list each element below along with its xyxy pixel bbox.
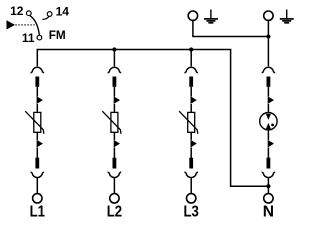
FM contact 14 fixed contact hook bbox=[42, 16, 49, 19]
terminal L3 bbox=[187, 194, 196, 203]
wire F2 below varistor bbox=[113, 132, 115, 140]
thermal disconnect element bottom F4 bbox=[267, 158, 271, 169]
wire F2 to varistor bbox=[113, 104, 115, 112]
wire PE1 link bbox=[193, 20, 269, 36]
disconnect indicator arrow bottom F2 bbox=[114, 140, 120, 148]
disconnect indicator arrow bottom F1 bbox=[37, 140, 43, 148]
svg-text:14: 14 bbox=[56, 4, 70, 18]
thermal disconnect element top F4 bbox=[267, 77, 271, 87]
disconnect indicator arrow top F3 bbox=[191, 96, 197, 104]
wire L2 riser bbox=[113, 50, 115, 67]
wire F4 to spark gap bbox=[267, 104, 269, 115]
wire F1 to terminal bbox=[36, 178, 38, 193]
gas discharge tube F4 bbox=[260, 113, 277, 130]
plug-in disconnect top F1 bbox=[31, 67, 45, 72]
wire F2 to terminal bbox=[113, 178, 115, 193]
wire F2 lower bbox=[113, 148, 115, 159]
disconnect indicator arrow top F2 bbox=[114, 96, 120, 104]
wire F3 to terminal bbox=[190, 178, 192, 193]
svg-text:FM: FM bbox=[49, 28, 66, 42]
disconnect indicator arrow top F1 bbox=[37, 96, 43, 104]
varistor F3 bbox=[188, 112, 195, 132]
thermal disconnect element top F3 bbox=[189, 77, 193, 87]
wire F1 to varistor bbox=[36, 104, 38, 112]
wire F3 upper bbox=[190, 87, 192, 97]
wire L3 riser bbox=[190, 50, 192, 67]
wire F3 below varistor bbox=[190, 132, 192, 140]
wire F1 upper bbox=[36, 87, 38, 97]
junction bus L2 bbox=[112, 47, 116, 51]
junction PE link / N riser bbox=[266, 34, 270, 38]
thermal disconnect element bottom F3 bbox=[189, 158, 193, 169]
svg-text:11: 11 bbox=[22, 31, 35, 45]
wire F4 upper bbox=[267, 87, 269, 97]
varistor F2 bbox=[111, 112, 118, 132]
thermal disconnect element bottom F2 bbox=[113, 158, 117, 169]
svg-text:L2: L2 bbox=[107, 204, 123, 221]
wire F4 below spark gap bbox=[267, 128, 269, 140]
wire F4 to terminal bbox=[267, 178, 269, 193]
actuator arrow bbox=[7, 20, 16, 29]
plug-in disconnect bottom F1 bbox=[31, 172, 45, 177]
terminal N bbox=[264, 194, 273, 203]
ground symbol PE1 bbox=[204, 10, 218, 23]
disconnect indicator arrow bottom F4 bbox=[268, 140, 274, 148]
plug-in disconnect bottom F4 bbox=[262, 172, 276, 177]
plug-in disconnect top F4 bbox=[262, 67, 276, 72]
varistor F1 bbox=[34, 112, 41, 132]
junction bus L3 bbox=[189, 47, 193, 51]
wire main bus bbox=[37, 50, 268, 187]
disconnect indicator arrow top F4 bbox=[268, 96, 274, 104]
plug-in disconnect top F2 bbox=[108, 67, 122, 72]
wire F3 lower bbox=[190, 148, 192, 159]
wire F3 to varistor bbox=[190, 104, 192, 112]
wire F1 lower bbox=[36, 148, 38, 159]
plug-in disconnect bottom F2 bbox=[108, 172, 122, 177]
wire F1 below varistor bbox=[36, 132, 38, 140]
wire F2 upper bbox=[113, 87, 115, 97]
disconnect indicator arrow bottom F3 bbox=[191, 140, 197, 148]
svg-text:12: 12 bbox=[10, 4, 24, 18]
wire F4 lower bbox=[267, 148, 269, 159]
svg-text:L3: L3 bbox=[184, 204, 200, 221]
terminal L2 bbox=[110, 194, 119, 203]
svg-text:L1: L1 bbox=[30, 204, 46, 221]
thermal disconnect element bottom F1 bbox=[35, 158, 39, 169]
ground symbol PE2 bbox=[280, 10, 294, 23]
terminal PE1 bbox=[188, 11, 197, 20]
plug-in disconnect top F3 bbox=[184, 67, 198, 72]
FM contact terminal 12 bbox=[26, 11, 31, 16]
svg-text:N: N bbox=[263, 204, 274, 221]
thermal disconnect element top F2 bbox=[113, 77, 117, 87]
thermal disconnect element top F1 bbox=[35, 77, 39, 87]
FM switch lever bbox=[30, 16, 39, 36]
wire N riser bbox=[267, 20, 269, 66]
mechanical link dotted line bbox=[15, 24, 34, 26]
terminal PE2 bbox=[264, 11, 273, 20]
FM contact terminal 11 bbox=[37, 35, 42, 40]
junction N / bus drop bbox=[266, 184, 270, 188]
plug-in disconnect bottom F3 bbox=[184, 172, 198, 177]
terminal L1 bbox=[33, 194, 42, 203]
FM contact terminal 14 bbox=[47, 12, 52, 17]
